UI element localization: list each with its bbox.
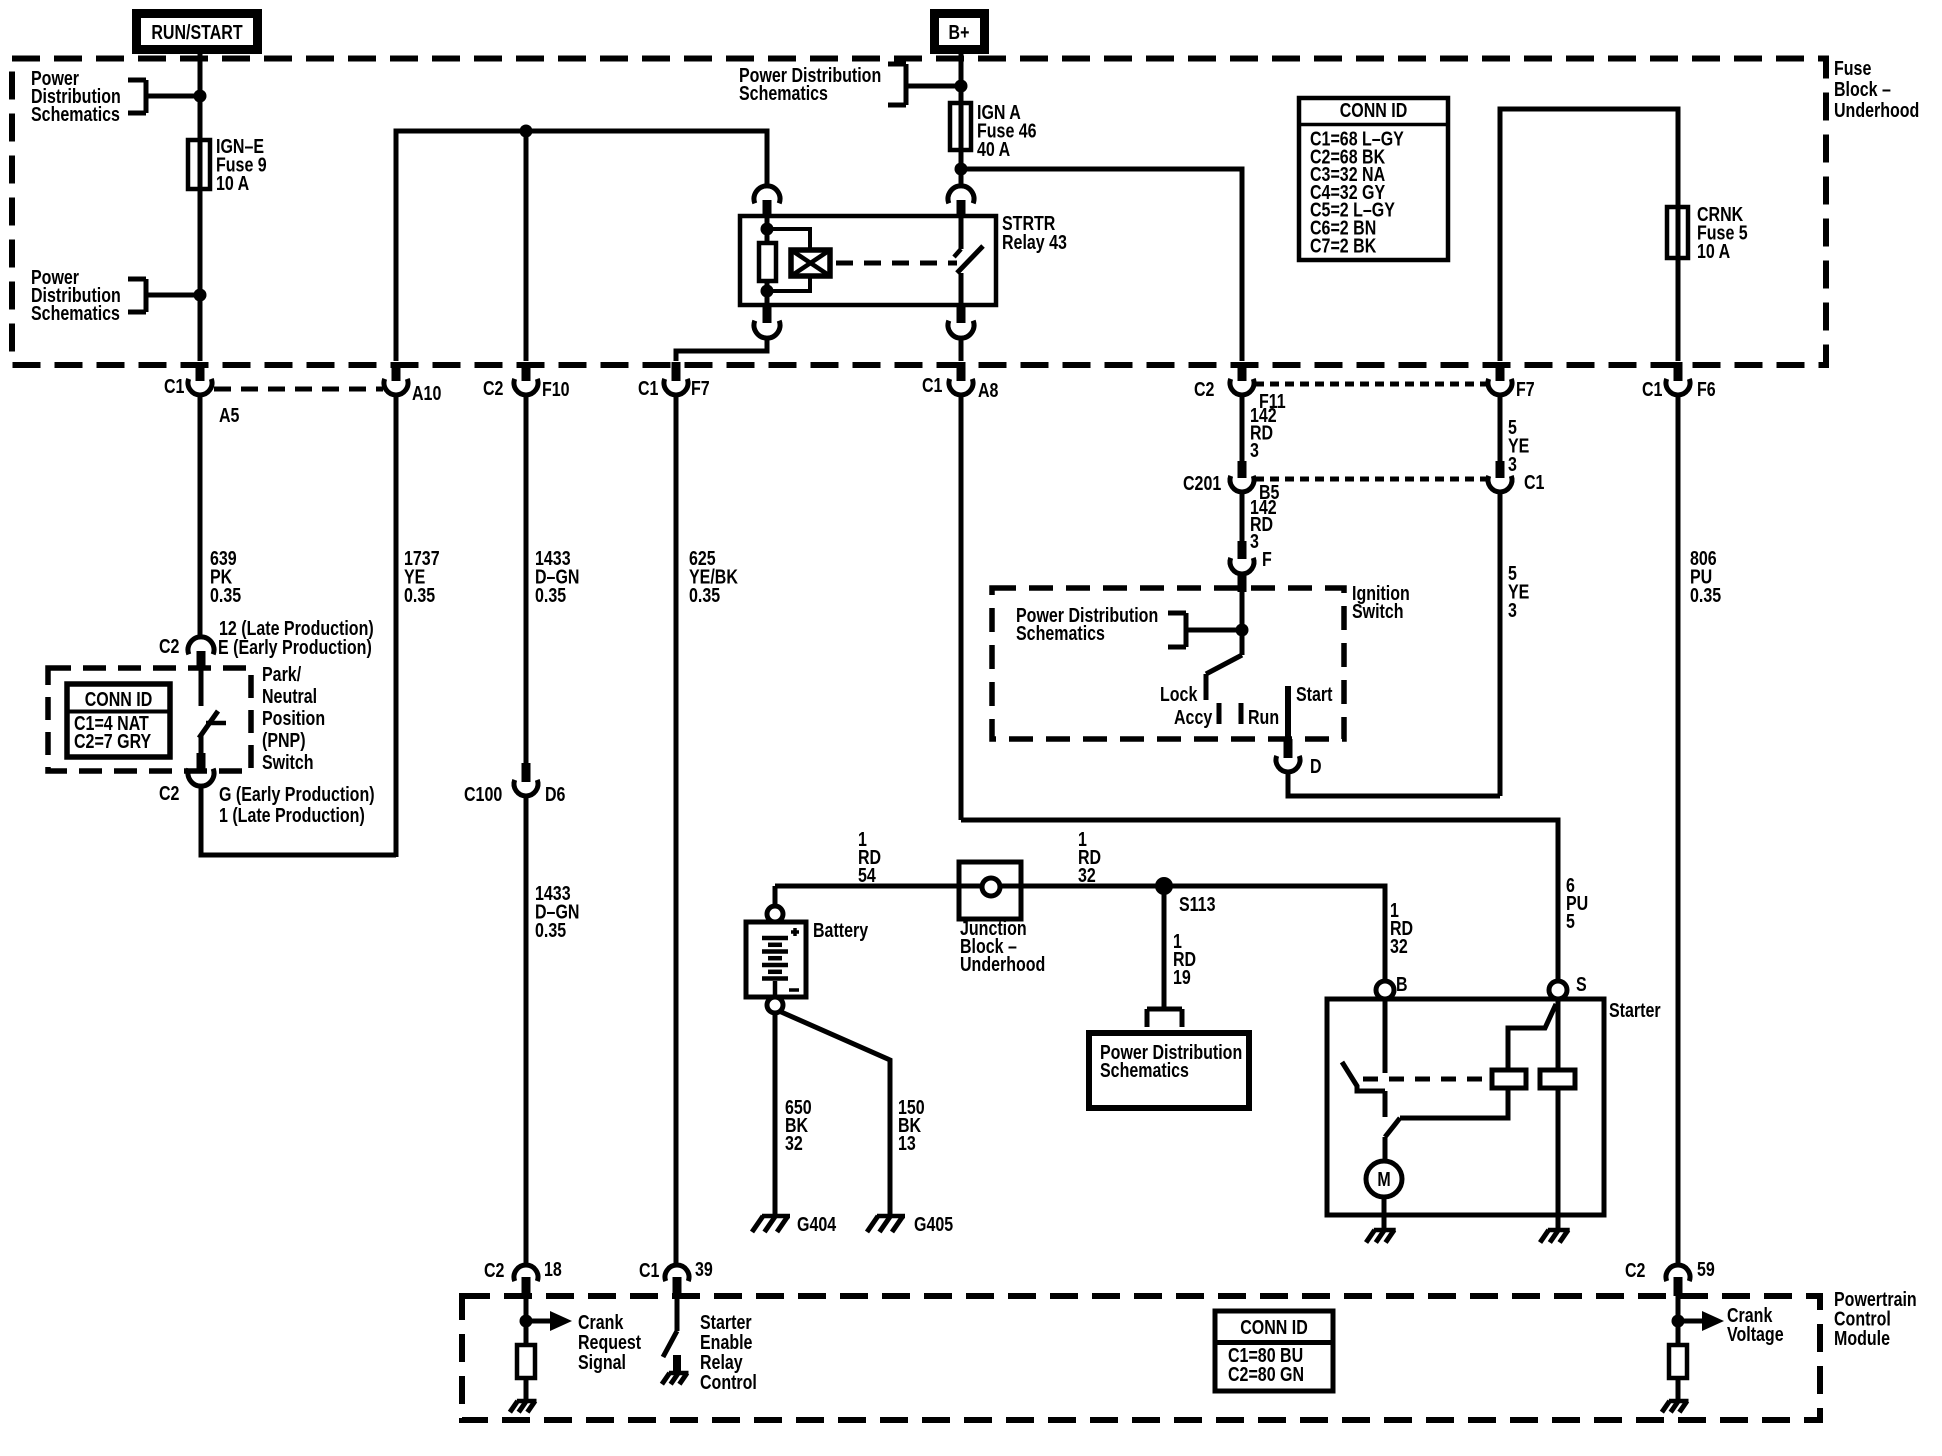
svg-text:Module: Module	[1834, 1327, 1890, 1349]
svg-text:D: D	[1310, 755, 1322, 777]
svg-text:A5: A5	[219, 404, 239, 426]
svg-text:0.35: 0.35	[689, 584, 720, 606]
svg-text:C2: C2	[159, 635, 179, 657]
svg-text:A8: A8	[978, 379, 998, 401]
svg-text:3: 3	[1250, 530, 1259, 552]
svg-text:C2: C2	[1194, 378, 1214, 400]
svg-text:S: S	[1576, 973, 1587, 995]
svg-text:CONN ID: CONN ID	[1240, 1316, 1308, 1338]
svg-text:Start: Start	[1296, 683, 1332, 705]
svg-text:1 (Late Production): 1 (Late Production)	[219, 804, 365, 826]
svg-text:Lock: Lock	[1160, 683, 1198, 705]
svg-text:Request: Request	[578, 1331, 641, 1353]
svg-text:Position: Position	[262, 707, 325, 729]
svg-text:Block –: Block –	[1834, 78, 1891, 100]
svg-text:C2: C2	[159, 782, 179, 804]
svg-text:Voltage: Voltage	[1727, 1323, 1784, 1345]
svg-text:C2=7 GRY: C2=7 GRY	[74, 730, 151, 752]
svg-text:Fuse: Fuse	[1834, 57, 1871, 79]
svg-text:Switch: Switch	[262, 751, 314, 773]
svg-text:F6: F6	[1697, 378, 1716, 400]
svg-text:18: 18	[544, 1258, 562, 1280]
svg-text:F7: F7	[691, 377, 710, 399]
svg-text:39: 39	[695, 1258, 713, 1280]
svg-text:10 A: 10 A	[1697, 240, 1730, 262]
svg-text:Schematics: Schematics	[1016, 622, 1105, 644]
svg-text:G405: G405	[914, 1213, 953, 1235]
svg-text:C2: C2	[1625, 1259, 1645, 1281]
svg-text:C1: C1	[1524, 471, 1544, 493]
svg-text:3: 3	[1508, 453, 1517, 475]
svg-text:C1: C1	[164, 375, 184, 397]
svg-text:M: M	[1377, 1168, 1390, 1190]
svg-text:F7: F7	[1516, 378, 1535, 400]
svg-text:32: 32	[1078, 864, 1096, 886]
svg-text:F10: F10	[542, 378, 570, 400]
svg-text:5: 5	[1566, 910, 1575, 932]
svg-text:32: 32	[1390, 935, 1408, 957]
svg-text:C1: C1	[922, 374, 942, 396]
svg-text:Relay: Relay	[700, 1351, 743, 1373]
svg-text:0.35: 0.35	[1690, 584, 1721, 606]
svg-text:19: 19	[1173, 966, 1191, 988]
svg-text:D6: D6	[545, 783, 565, 805]
svg-text:Starter: Starter	[1609, 999, 1661, 1021]
svg-text:B: B	[1396, 973, 1408, 995]
svg-text:C100: C100	[464, 783, 502, 805]
svg-text:3: 3	[1508, 599, 1517, 621]
svg-text:RUN/START: RUN/START	[151, 21, 242, 43]
svg-text:54: 54	[858, 864, 876, 886]
svg-text:C1: C1	[1642, 378, 1662, 400]
svg-text:3: 3	[1250, 439, 1259, 461]
svg-text:Control: Control	[700, 1371, 757, 1393]
svg-text:0.35: 0.35	[404, 584, 435, 606]
svg-text:13: 13	[898, 1132, 916, 1154]
svg-text:C1: C1	[638, 377, 658, 399]
svg-text:G404: G404	[797, 1213, 836, 1235]
svg-text:C7=2 BK: C7=2 BK	[1310, 235, 1376, 257]
svg-text:F: F	[1262, 548, 1272, 570]
svg-text:G (Early Production): G (Early Production)	[219, 783, 375, 805]
svg-text:32: 32	[785, 1132, 803, 1154]
svg-text:Crank: Crank	[578, 1311, 624, 1333]
svg-text:Battery: Battery	[813, 919, 868, 941]
svg-text:Neutral: Neutral	[262, 685, 317, 707]
svg-text:0.35: 0.35	[210, 584, 241, 606]
svg-text:40 A: 40 A	[977, 138, 1010, 160]
svg-text:Signal: Signal	[578, 1351, 626, 1373]
svg-text:C2: C2	[484, 1259, 504, 1281]
svg-text:0.35: 0.35	[535, 919, 566, 941]
svg-text:Schematics: Schematics	[1100, 1059, 1189, 1081]
svg-text:Switch: Switch	[1352, 600, 1404, 622]
svg-text:B+: B+	[949, 21, 970, 43]
svg-text:Relay 43: Relay 43	[1002, 231, 1067, 253]
svg-text:(PNP): (PNP)	[262, 729, 306, 751]
svg-text:C1: C1	[639, 1259, 659, 1281]
svg-text:E (Early Production): E (Early Production)	[218, 636, 372, 658]
svg-text:CONN ID: CONN ID	[1340, 99, 1408, 121]
svg-text:S113: S113	[1179, 893, 1215, 915]
svg-text:CONN ID: CONN ID	[85, 688, 153, 710]
svg-text:Schematics: Schematics	[739, 82, 828, 104]
svg-text:Schematics: Schematics	[31, 302, 120, 324]
svg-text:A10: A10	[412, 382, 441, 404]
svg-text:C2=80 GN: C2=80 GN	[1228, 1363, 1304, 1385]
svg-text:Enable: Enable	[700, 1331, 752, 1353]
svg-text:Park/: Park/	[262, 663, 301, 685]
svg-text:Underhood: Underhood	[960, 953, 1045, 975]
svg-text:Run: Run	[1248, 706, 1279, 728]
svg-text:C201: C201	[1183, 472, 1221, 494]
svg-text:Underhood: Underhood	[1834, 99, 1919, 121]
svg-text:Accy: Accy	[1174, 706, 1212, 728]
svg-text:59: 59	[1697, 1258, 1715, 1280]
svg-text:C2: C2	[483, 377, 503, 399]
svg-text:Starter: Starter	[700, 1311, 752, 1333]
svg-text:0.35: 0.35	[535, 584, 566, 606]
svg-text:10 A: 10 A	[216, 172, 249, 194]
svg-text:Schematics: Schematics	[31, 103, 120, 125]
